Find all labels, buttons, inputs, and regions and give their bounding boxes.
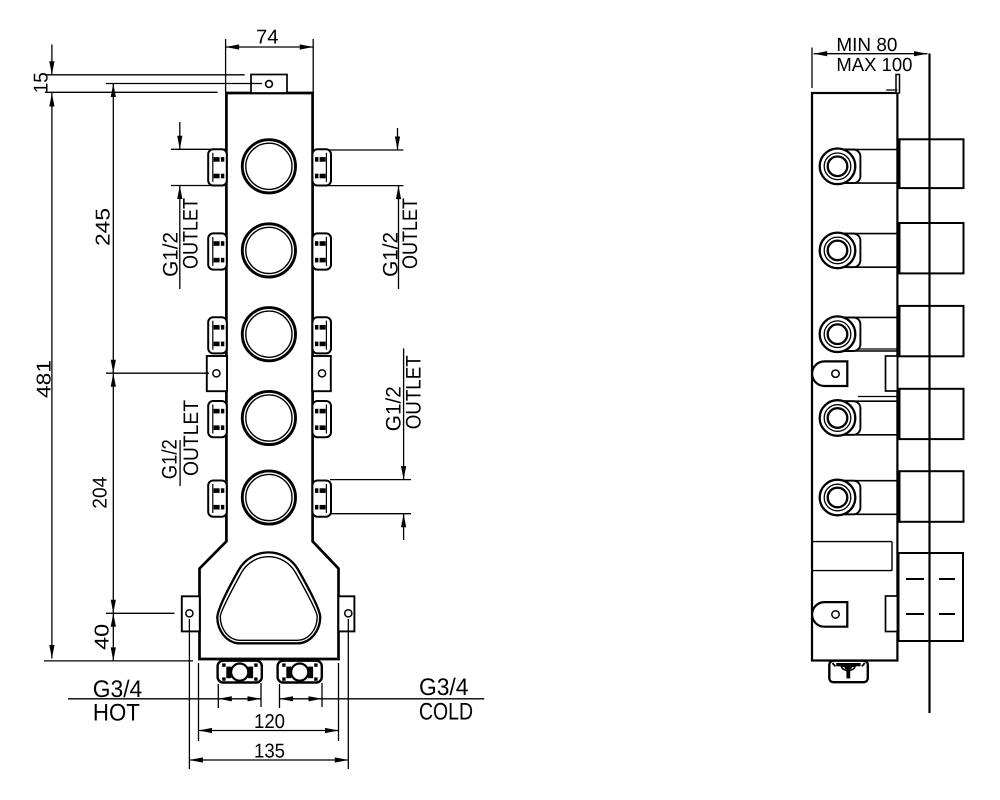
port circle 5 — [242, 471, 295, 524]
side body step — [886, 89, 897, 91]
rear lug bottom — [886, 596, 898, 632]
outlet connector right 3 — [312, 317, 331, 353]
svg-text:120: 120 — [254, 711, 285, 733]
outlet connector left 2 — [208, 233, 227, 269]
port circle 2 — [242, 224, 295, 277]
dimension 245 — [112, 84, 114, 374]
port circle 1 — [242, 140, 295, 193]
valve body outline side view — [812, 93, 897, 661]
dimension 15 tab offset — [51, 45, 53, 75]
svg-text:135: 135 — [254, 741, 285, 763]
side port knob 5 — [820, 480, 897, 516]
mid mounting ear right — [312, 356, 331, 391]
svg-text:OUTLET: OUTLET — [402, 355, 425, 429]
svg-text:HOT: HOT — [93, 700, 140, 727]
svg-text:G1/2: G1/2 — [158, 439, 181, 479]
svg-text:15: 15 — [31, 72, 53, 93]
inlet fitting cold front — [278, 661, 322, 683]
dimension 40 — [112, 613, 114, 661]
top fixing tab — [251, 75, 287, 94]
svg-text:OUTLET: OUTLET — [180, 400, 203, 476]
side port knob 4 — [820, 400, 897, 436]
outlet connector right 2 — [312, 233, 331, 269]
dimension 481 overall height — [51, 93, 53, 659]
svg-text:G3/4: G3/4 — [419, 674, 469, 701]
bottom mounting ear right — [338, 596, 354, 631]
dimension 204 — [112, 373, 114, 613]
outlet dimension right port5 — [330, 479, 411, 481]
bottom mounting ear left — [182, 596, 200, 631]
side inlet fitting — [829, 661, 868, 683]
inlet fitting hot front — [218, 661, 262, 683]
mid mounting ear left — [207, 356, 227, 391]
side port knob 2 — [820, 233, 897, 269]
side ear section lines — [858, 348, 897, 350]
side view top tab — [896, 75, 900, 94]
svg-text:74: 74 — [256, 27, 279, 49]
side body groove band — [812, 541, 892, 543]
dimension 74 top width — [225, 39, 227, 92]
outlet connector right 4 — [312, 401, 331, 437]
wall box 5 — [900, 471, 964, 522]
svg-text:MIN 80: MIN 80 — [836, 35, 897, 56]
svg-text:481: 481 — [34, 360, 56, 398]
dimension 135 — [188, 619, 190, 769]
outlet connector right 5 — [312, 481, 331, 517]
wall box 1 — [900, 139, 964, 188]
inlet dimension G3/4 COLD — [279, 684, 281, 708]
svg-text:OUTLET: OUTLET — [179, 198, 202, 269]
outlet connector left 5 — [208, 481, 227, 517]
svg-text:COLD: COLD — [419, 699, 473, 726]
outlet connector left 1 — [208, 149, 227, 185]
valve body outline front view — [200, 93, 339, 659]
side port knob 1 — [820, 149, 897, 185]
outlet connector left 3 — [208, 317, 227, 353]
inlet dimension G3/4 HOT — [217, 684, 219, 708]
svg-text:204: 204 — [90, 477, 112, 509]
lower wall box with dashed lines — [899, 553, 964, 641]
side port knob 3 — [820, 316, 897, 352]
bell shaped opening — [217, 552, 320, 643]
side mounting ear 2 — [812, 602, 847, 627]
label G1/2 OUTLET left bottom — [179, 440, 181, 486]
top tab hole — [266, 81, 273, 88]
wall box 3 — [900, 306, 964, 356]
svg-text:40: 40 — [92, 624, 114, 650]
wall box 2 — [900, 223, 964, 273]
wall box 4 — [900, 389, 964, 439]
dimension 120 — [198, 663, 200, 741]
dimension MIN 80 MAX 100 — [811, 48, 813, 89]
outlet dimension right port1 — [328, 149, 404, 151]
svg-text:MAX 100: MAX 100 — [836, 55, 912, 76]
outlet connector right 1 — [312, 149, 331, 185]
outlet connector left 4 — [208, 401, 227, 437]
port circle 3 — [242, 308, 295, 361]
rear lug mid — [886, 356, 898, 391]
port circle 4 — [242, 391, 295, 444]
svg-text:OUTLET: OUTLET — [399, 198, 422, 269]
side mounting ear 1 — [812, 361, 847, 386]
outlet dimension left port1 — [171, 148, 226, 150]
svg-text:245: 245 — [93, 208, 115, 246]
wall line — [928, 54, 930, 714]
